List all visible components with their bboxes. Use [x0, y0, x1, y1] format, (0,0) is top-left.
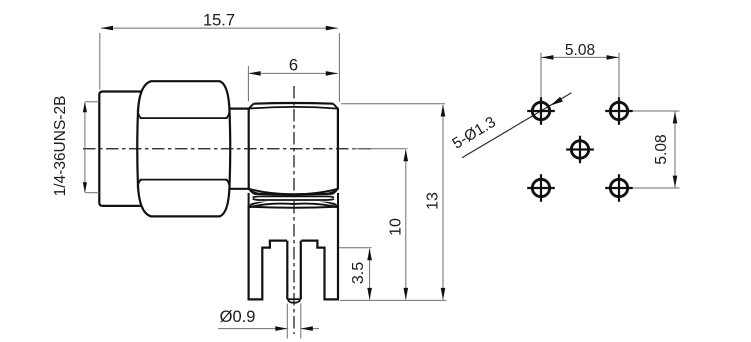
ext line 15.7 left: [99, 33, 101, 90]
svg-text:10: 10: [388, 218, 405, 236]
hex chamfer wedge bottom-right: [226, 180, 230, 188]
can top edge: [250, 207, 337, 208]
arrow 5.08 top left: [541, 55, 553, 60]
body top crown line: [249, 107, 338, 109]
ext line pin right: [300, 304, 302, 339]
thread ext bottom: [85, 192, 99, 194]
hex chamfer wedge bottom-left: [138, 180, 142, 188]
arrowheads left view: [83, 26, 446, 331]
dim line dia 0.9 right part: [301, 328, 319, 330]
ext line 10 (axis): [352, 148, 408, 150]
arrow 5.08 right bottom: [673, 176, 678, 188]
body top edge: [254, 102, 334, 105]
body bottom chamfer right: [333, 189, 338, 194]
ext line 13 top: [341, 103, 445, 105]
pin tip dome: [288, 299, 300, 302]
arrow 15.7 left: [101, 26, 113, 31]
can + left leg outline: [249, 206, 287, 300]
can top crown line: [249, 204, 338, 208]
arrow dia0.9 left: [275, 326, 287, 331]
hole center: [566, 136, 594, 164]
square body (6mm) left edge: [248, 108, 250, 189]
arrow 13 top: [441, 105, 446, 117]
body top chamfer left: [249, 104, 254, 109]
hex face line upper: [140, 117, 228, 119]
svg-text:6: 6: [289, 57, 298, 75]
hole bottom-right: [605, 174, 633, 202]
svg-text:5.08: 5.08: [565, 42, 595, 59]
dim line 3.5: [369, 249, 371, 300]
arrow 5.08 top right: [607, 55, 619, 60]
horizontal centerline (axis): [83, 148, 371, 150]
svg-text:3.5: 3.5: [350, 262, 367, 284]
ext line 15.7/6 right: [338, 33, 340, 102]
hex chamfer wedge top-left: [138, 110, 142, 118]
hex face line lower: [140, 179, 228, 181]
groove band top line: [253, 196, 334, 197]
arrow 13 bottom: [441, 288, 446, 300]
body bottom chamfer left: [249, 189, 254, 194]
thread barrel body: [99, 92, 146, 206]
hole top-left: [527, 97, 555, 125]
body bottom crown line: [249, 189, 338, 195]
pin tip crossbar: [287, 298, 301, 300]
dim line 5.08 top: [541, 56, 619, 58]
can + right leg outline: [301, 206, 338, 300]
body bottom wedge fill right: [320, 189, 338, 194]
body bottom edge: [254, 193, 334, 196]
thread ext top: [85, 101, 99, 103]
arrow thread top: [83, 102, 87, 113]
ext line 6 left: [247, 66, 249, 102]
footprint dimension thin lines: [541, 53, 680, 189]
ext bottom-right hole right: [633, 187, 680, 189]
arrow 3.5 bottom: [367, 288, 372, 300]
dim line 15.7: [101, 27, 338, 29]
ext top-right hole right: [633, 110, 680, 112]
dim line 10: [405, 150, 407, 300]
leader line 5-dia1.3: [462, 93, 572, 158]
body bottom wedge fill left: [249, 189, 267, 194]
dim line 5.08 right: [674, 111, 676, 188]
leader arrowhead: [550, 97, 563, 106]
dim line 13: [442, 105, 444, 300]
ext line bottom shared: [340, 299, 447, 301]
ext line 3.5 top: [339, 247, 372, 249]
arrow thread bottom: [83, 182, 87, 193]
arrow 10 top: [404, 149, 409, 161]
svg-text:Ø0.9: Ø0.9: [220, 308, 256, 326]
arrow dia0.9 right: [301, 326, 313, 331]
center pin: [287, 241, 301, 300]
svg-text:15.7: 15.7: [203, 12, 235, 30]
body top chamfer right: [333, 104, 338, 109]
ext top-left hole up: [540, 53, 542, 98]
groove (bowtie) left edge: [248, 193, 250, 207]
vertical centerline: [293, 86, 295, 334]
arrow 6 right: [326, 71, 338, 76]
square body right edge: [337, 108, 339, 189]
can top wedge fill left: [249, 202, 267, 207]
ext top-right hole up: [618, 53, 620, 98]
footprint arrowheads: [541, 55, 677, 188]
arrow 5.08 right top: [673, 111, 678, 123]
svg-text:13: 13: [425, 192, 442, 210]
arrow 3.5 top: [367, 248, 372, 260]
arrow 15.7 right: [326, 26, 338, 31]
arrow 6 left: [249, 71, 261, 76]
dim line 6: [250, 72, 338, 74]
svg-text:5.08: 5.08: [653, 134, 670, 164]
hex chamfer wedge top-right: [226, 110, 230, 118]
ext line pin left: [286, 304, 288, 339]
hole bottom-left: [527, 174, 555, 202]
groove right edge: [337, 193, 339, 207]
can top wedge fill right: [320, 202, 338, 207]
arrow 10 bottom: [404, 288, 409, 300]
groove band bottom line: [253, 199, 334, 200]
neck between hex and square body: [230, 109, 249, 189]
svg-text:1/4-36UNS-2B: 1/4-36UNS-2B: [52, 96, 69, 197]
thread callout line: [84, 103, 86, 193]
hex nut: [137, 81, 230, 216]
dim line dia 0.9 left part: [218, 328, 287, 330]
hole top-right: [605, 97, 633, 125]
